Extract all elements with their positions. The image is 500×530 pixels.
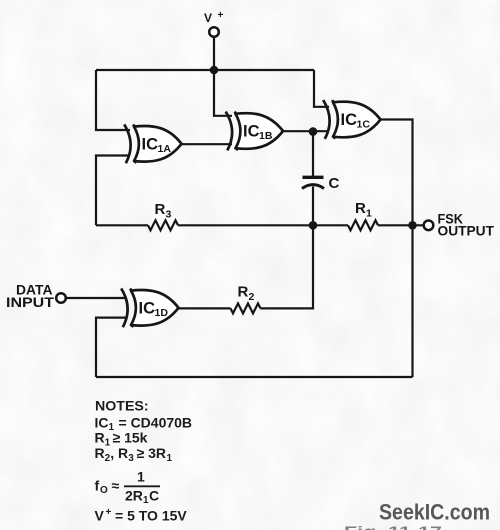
- svg-text:IC: IC: [243, 123, 260, 141]
- xor gate IC1B: [226, 112, 283, 151]
- wire left rail to IC1A input 1: [96, 70, 130, 130]
- svg-text:+: +: [218, 10, 224, 21]
- svg-text:V: V: [204, 11, 212, 25]
- wire capacitor bottom lead: [312, 187, 314, 226]
- svg-text:R: R: [95, 430, 105, 446]
- svg-text:1B: 1B: [259, 130, 273, 142]
- wire R3 row left: [96, 224, 148, 226]
- svg-text:R: R: [95, 445, 105, 461]
- wire IC1A input 2 from R3 row: [96, 156, 130, 226]
- wire capacitor top lead: [312, 131, 314, 176]
- svg-text:3: 3: [128, 453, 134, 464]
- svg-text:O: O: [100, 485, 108, 496]
- wire IC1C input 1 from top rail: [314, 70, 329, 107]
- svg-text:≥ 15k: ≥ 15k: [113, 430, 148, 446]
- terminal FSK output: [424, 221, 434, 231]
- svg-text:1: 1: [366, 208, 372, 220]
- svg-text:1: 1: [137, 469, 145, 485]
- wire R3 row right: [178, 224, 313, 226]
- wire IC1D input 2 leg: [96, 318, 127, 377]
- svg-text:2: 2: [249, 291, 255, 303]
- wire IC1C output to right rail: [381, 120, 413, 378]
- capacitor C: [302, 177, 324, 188]
- wire top rail: [96, 69, 314, 71]
- svg-text:1C: 1C: [357, 119, 371, 131]
- svg-text:f: f: [95, 478, 100, 494]
- svg-text:C: C: [329, 175, 340, 192]
- wire IC1B input 1 from V+ node: [214, 70, 232, 116]
- svg-text:C: C: [149, 488, 159, 504]
- svg-text:Fig. 11-17: Fig. 11-17: [344, 523, 442, 530]
- svg-text:NOTES:: NOTES:: [95, 399, 149, 415]
- svg-text:IC: IC: [139, 300, 156, 318]
- svg-text:2R: 2R: [125, 488, 143, 504]
- resistor R2: [231, 303, 261, 313]
- wire R1 row right to FSK terminal: [378, 224, 424, 226]
- svg-text:R: R: [155, 201, 166, 218]
- svg-text:SeekIC.com: SeekIC.com: [379, 500, 490, 525]
- svg-text:INPUT: INPUT: [6, 294, 55, 310]
- xor gate IC1C: [323, 100, 380, 139]
- terminal V+: [209, 27, 219, 37]
- xor gate IC1D: [121, 288, 178, 327]
- svg-text:≈: ≈: [112, 478, 120, 494]
- svg-text:1D: 1D: [155, 307, 169, 319]
- wire DATA input to IC1D input 1: [66, 297, 127, 299]
- node junction capacitor top: [309, 127, 318, 136]
- svg-text:IC: IC: [142, 136, 159, 154]
- svg-text:IC: IC: [341, 111, 358, 129]
- wire bottom feedback rail: [96, 376, 413, 378]
- node junction V+ rail: [210, 66, 219, 75]
- wire V+ stub: [213, 37, 215, 70]
- svg-text:OUTPUT: OUTPUT: [438, 222, 495, 238]
- node junction FSK: [408, 221, 417, 230]
- svg-text:+: +: [106, 507, 112, 518]
- wire IC1D output to R2: [179, 307, 231, 309]
- svg-text:1A: 1A: [158, 143, 172, 155]
- resistor R1: [348, 220, 378, 230]
- svg-text:= CD4070B: = CD4070B: [119, 414, 193, 430]
- svg-text:IC: IC: [95, 414, 109, 430]
- node junction R row / capacitor bottom: [309, 221, 318, 230]
- svg-text:1: 1: [167, 453, 173, 464]
- svg-text:, R: , R: [110, 445, 128, 461]
- resistor R3: [148, 220, 178, 230]
- op-amp style XOR gate IC1A: [124, 124, 181, 163]
- wire R2 right to center node: [261, 225, 314, 308]
- svg-text:3: 3: [166, 209, 172, 221]
- notes text block: [95, 399, 193, 524]
- svg-text:= 5 TO 15V: = 5 TO 15V: [115, 507, 187, 523]
- wire R1 row left: [313, 224, 348, 226]
- svg-text:≥ 3R: ≥ 3R: [137, 445, 166, 461]
- wire IC1B output to IC1C input 2: [283, 130, 329, 132]
- wire IC1A output to IC1B input 2: [182, 143, 233, 145]
- terminal DATA INPUT: [56, 293, 66, 303]
- svg-text:R: R: [238, 284, 249, 301]
- svg-text:V: V: [95, 507, 105, 523]
- svg-text:R: R: [355, 200, 366, 217]
